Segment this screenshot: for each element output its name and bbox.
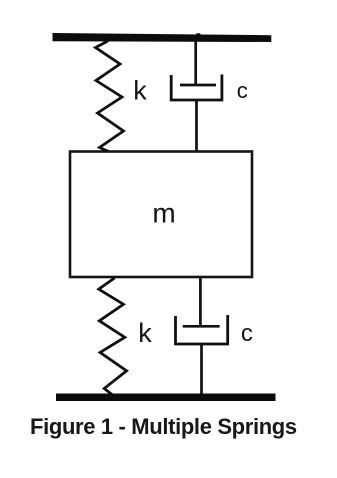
svg-text:c: c	[237, 78, 248, 103]
svg-text:m: m	[152, 198, 175, 229]
svg-text:k: k	[138, 318, 152, 348]
svg-text:k: k	[133, 76, 147, 106]
svg-text:Figure 1 - Multiple Springs: Figure 1 - Multiple Springs	[30, 414, 297, 439]
svg-text:c: c	[241, 320, 253, 347]
